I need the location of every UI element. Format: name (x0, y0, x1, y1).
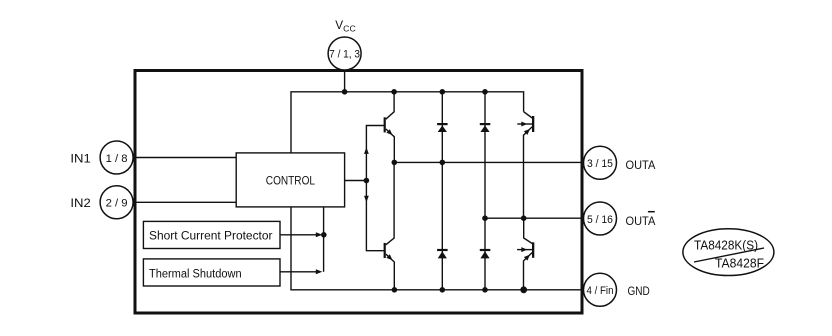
svg-text:4 / Fin: 4 / Fin (587, 285, 614, 297)
transistor Q1 upper-left NPN (384, 92, 395, 163)
node: OUTA-bar junction at x=485 (482, 215, 488, 221)
node: protector junction (321, 232, 327, 238)
diode D3 bottom-left (437, 249, 448, 259)
diode D2 top-right (480, 123, 491, 132)
node: VCC rail junction at x=442 (440, 89, 446, 95)
wire: CONTROL output to driver tee (345, 180, 367, 182)
wire: IN1 lead into CONTROL (133, 157, 236, 159)
wire: GND rail from CONTROL bottom to GND pin (291, 207, 583, 290)
node: OUTA junction at x=394 (392, 160, 398, 166)
wire: up arrow on driver vertical (364, 147, 369, 154)
svg-text:TA8428K(S): TA8428K(S) (694, 238, 758, 253)
transistor Q3 upper-right PNP (517, 112, 534, 219)
node: VCC rail junction at x=485 (482, 89, 488, 95)
wire: vertical from CONTROL bottom to protector node (323, 207, 325, 272)
CONTROL block U1 (236, 153, 344, 207)
transistor Q2 lower-left NPN (384, 162, 395, 289)
svg-text:7 / 1, 3: 7 / 1, 3 (329, 49, 360, 61)
node: driver tee junction (364, 178, 370, 184)
part number ellipse TA8428K(S)/TA8428F (683, 229, 774, 276)
svg-text:OUTA: OUTA (626, 158, 656, 172)
pin VCC 7/1,3 (328, 37, 361, 70)
node: OUTA junction at x=442 (440, 160, 446, 166)
node: GND rail junction at x=394 (392, 287, 398, 293)
transistor Q4 lower-right PNP (517, 218, 534, 290)
svg-text:TA8428F: TA8428F (715, 256, 764, 271)
Short Current Protector block (143, 221, 280, 248)
node: GND rail junction at x=485 (482, 287, 488, 293)
svg-text:GND: GND (628, 284, 651, 298)
svg-text:Thermal Shutdown: Thermal Shutdown (149, 268, 242, 280)
diode D4 bottom-right (480, 249, 491, 259)
node: GND rail junction at x=442 (440, 287, 446, 293)
node: OUTA-bar junction at x=523.7 (521, 215, 527, 221)
node: VCC rail junction at x=394 (391, 89, 397, 95)
wire: down arrow on driver vertical (364, 196, 369, 203)
svg-text:2 / 9: 2 / 9 (106, 198, 128, 210)
IC outline box (135, 71, 582, 314)
pin IN2 2/9 (100, 186, 133, 219)
wire: VCC drop into top rail (344, 70, 346, 92)
wire: OUTA-bar horizontal line (485, 217, 583, 219)
wire: top VCC rail (291, 92, 524, 153)
svg-text:1 / 8: 1 / 8 (106, 153, 128, 165)
wire: short current protector output with arrow (280, 234, 316, 236)
pin GND 4/Fin (584, 273, 617, 306)
node: VCC rail junction at x=344.6 (342, 89, 348, 95)
node: GND rail junction at x=523.7 (520, 286, 527, 293)
wire: IN2 lead into CONTROL (133, 201, 236, 203)
pin IN1 1/8 (100, 141, 133, 174)
wire: OUTA horizontal line (394, 161, 583, 163)
svg-text:CONTROL: CONTROL (266, 176, 316, 188)
svg-text:IN1: IN1 (70, 152, 91, 166)
Thermal Shutdown block (143, 259, 280, 286)
svg-text:3 / 15: 3 / 15 (587, 158, 613, 170)
svg-text:Short Current Protector: Short Current Protector (149, 231, 273, 243)
pin OUTAbar 5/16 (584, 202, 617, 235)
svg-text:5 / 16: 5 / 16 (587, 214, 613, 226)
pin OUTA 3/15 (584, 146, 617, 179)
svg-text:IN2: IN2 (70, 196, 91, 210)
svg-text:OUTA: OUTA (626, 214, 656, 228)
wire: driver vertical with base leads (366, 126, 383, 251)
wire: left diode column vertical (441, 92, 443, 290)
wire: thermal shutdown output with arrow (280, 271, 316, 273)
wire: right diode column vertical (484, 92, 486, 290)
diode D1 top-left (437, 123, 448, 132)
